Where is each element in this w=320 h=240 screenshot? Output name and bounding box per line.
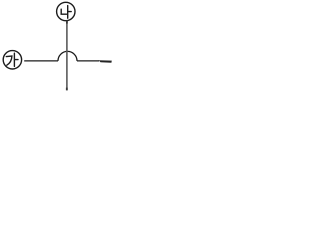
- node circle GA (가): [3, 51, 21, 69]
- wire: vertical line bottom tip: [66, 88, 68, 91]
- wire hop (crossover jump): [58, 51, 77, 60]
- wire: vertical line through hop: [66, 21, 68, 91]
- wire: right thick end segment: [99, 60, 112, 63]
- wire: left horizontal segment: [24, 60, 58, 62]
- wire: right horizontal segment: [77, 60, 99, 62]
- wire: vertical line top junction tick: [66, 21, 68, 24]
- node circle NA (나): [57, 2, 75, 20]
